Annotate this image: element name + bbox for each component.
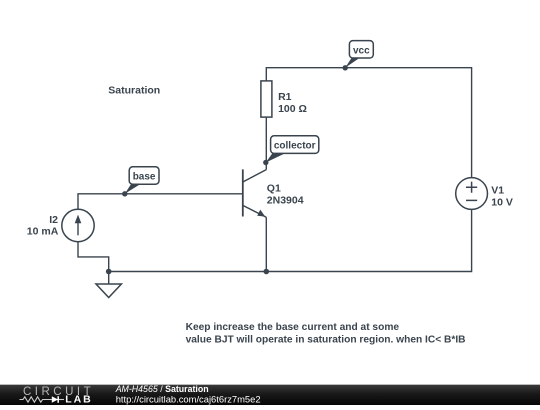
ground bbox=[96, 284, 121, 298]
svg-text:I2: I2 bbox=[49, 214, 58, 226]
svg-text:Q1: Q1 bbox=[267, 182, 281, 194]
footer CircuitLab logo wordmark bbox=[20, 386, 95, 406]
node vcc (net flag) bbox=[343, 41, 374, 71]
svg-text:10 V: 10 V bbox=[491, 197, 513, 209]
svg-text:Saturation: Saturation bbox=[108, 84, 160, 96]
svg-text:value BJT will operate in satu: value BJT will operate in saturation reg… bbox=[186, 335, 466, 346]
current source I2 bbox=[62, 209, 94, 241]
junction: Q1 emitter on bottom rail bbox=[264, 269, 270, 275]
wire: bottom rail (ground node to V1 bottom) bbox=[109, 209, 472, 271]
junction: ground node on bottom rail bbox=[106, 269, 112, 275]
wire: base net (I2 top to Q1 base) bbox=[78, 194, 243, 210]
svg-text:collector: collector bbox=[274, 141, 316, 152]
svg-text:http://circuitlab.com/caj6t6rz: http://circuitlab.com/caj6t6rz7m5e2 bbox=[116, 393, 261, 404]
transistor Q1 (NPN) bbox=[243, 169, 266, 271]
svg-text:R1: R1 bbox=[278, 91, 292, 103]
svg-text:Keep increase the base current: Keep increase the base current and at so… bbox=[186, 322, 400, 333]
footer bar bbox=[0, 384, 540, 405]
svg-text:base: base bbox=[133, 172, 156, 183]
node base (net flag) bbox=[122, 167, 159, 197]
svg-text:LAB: LAB bbox=[65, 394, 92, 406]
voltage source V1 bbox=[456, 178, 488, 210]
wire: I2 bottom to ground node bbox=[78, 242, 109, 284]
wire: vcc top rail (R1 top to V1 top) bbox=[266, 68, 471, 178]
svg-text:vcc: vcc bbox=[353, 45, 370, 56]
svg-text:V1: V1 bbox=[491, 184, 504, 196]
wire: R1 bottom to Q1 collector bbox=[265, 117, 267, 170]
resistor R1 bbox=[261, 81, 272, 117]
node collector (net flag) bbox=[263, 136, 319, 165]
svg-text:2N3904: 2N3904 bbox=[267, 194, 304, 206]
svg-text:AM-H4565 / Saturation: AM-H4565 / Saturation bbox=[115, 384, 209, 394]
svg-text:100 Ω: 100 Ω bbox=[278, 103, 307, 115]
svg-text:10 mA: 10 mA bbox=[27, 226, 59, 238]
